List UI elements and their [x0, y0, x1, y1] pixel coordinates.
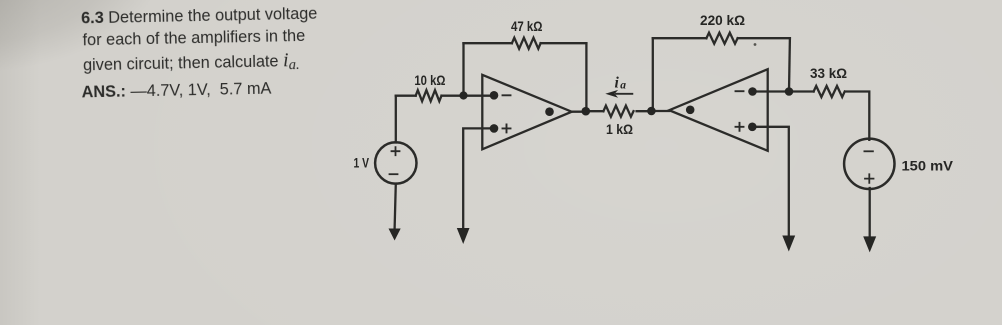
- op-amp U1 triangle: [482, 75, 571, 150]
- problem statement text block: [0, 0, 419, 4]
- opamp1 output pin dot: [545, 107, 554, 116]
- op-amp U2 triangle pointing left: [669, 69, 768, 151]
- 47k feedback left vertical: [462, 43, 464, 95]
- ia arrowhead pointing left: [605, 90, 618, 98]
- wire opamp2 minus pin to node: [753, 90, 790, 92]
- junction dot at opamp1 inverting node: [459, 91, 467, 99]
- V1 plus sign: [392, 147, 400, 155]
- U1 minus sign: [503, 94, 511, 96]
- node dot 1k right / 220k / opamp2 output: [647, 107, 656, 116]
- V1 minus sign: [390, 173, 398, 175]
- wire 33k right lead and corner down to source: [846, 92, 870, 140]
- opamp2 minus input pin dot: [748, 87, 757, 96]
- ground arrowhead below V2: [863, 236, 876, 252]
- 220k feedback right vertical to minus node: [788, 38, 791, 91]
- U2 minus sign: [736, 90, 744, 92]
- wire node to opamp2 apex: [651, 110, 669, 112]
- wire V1 bottom to ground: [395, 184, 396, 230]
- svg-text:220 kΩ: 220 kΩ: [700, 13, 745, 28]
- wire 10k left lead: [396, 95, 416, 97]
- resistor R4 220k zigzag: [706, 33, 737, 44]
- 220k feedback top right wire: [738, 37, 790, 39]
- opamp2 output pin dot: [686, 106, 695, 115]
- wire opamp1 plus pin to ground drop: [463, 128, 494, 228]
- svg-text:1 kΩ: 1 kΩ: [606, 122, 633, 137]
- U2 plus sign: [736, 123, 744, 131]
- svg-text:a: a: [620, 80, 626, 92]
- speckle dot: [754, 43, 757, 46]
- wire V1 top to 10k: [395, 96, 397, 143]
- svg-text:i: i: [615, 74, 620, 91]
- node dot 220k / 33k: [785, 87, 794, 96]
- svg-text:1 V: 1 V: [354, 156, 370, 171]
- 220k feedback top left wire: [653, 37, 707, 39]
- opamp1 minus input pin dot: [490, 91, 499, 100]
- resistor R2 47k zigzag: [512, 38, 541, 49]
- wire node to 1k left lead: [586, 110, 604, 112]
- wire 10k right lead to opamp1 minus pin: [442, 95, 495, 97]
- U1 plus sign: [503, 124, 511, 132]
- ground arrowhead below opamp1 plus wire: [457, 228, 470, 244]
- wire 1k right lead to node: [637, 110, 652, 112]
- svg-text:10 kΩ: 10 kΩ: [414, 73, 445, 88]
- V2 plus sign (bottom): [865, 174, 874, 183]
- 47k feedback top left wire: [464, 42, 512, 44]
- 47k feedback right vertical to output node: [585, 43, 587, 111]
- voltage source V1 1V: [375, 142, 416, 183]
- ground arrowhead below opamp2 plus wire: [782, 236, 795, 252]
- current arrow ia shaft: [616, 93, 632, 95]
- V2 minus sign (top): [864, 150, 873, 152]
- opamp1 plus input pin dot: [490, 124, 499, 133]
- 47k feedback top right wire: [541, 42, 587, 44]
- ground arrowhead below V1: [389, 229, 401, 241]
- resistor R3 1k zigzag: [603, 106, 633, 117]
- svg-text:47 kΩ: 47 kΩ: [511, 19, 543, 34]
- svg-text:33 kΩ: 33 kΩ: [810, 66, 847, 81]
- opamp2 plus input pin dot: [748, 123, 757, 132]
- 220k feedback left vertical: [652, 38, 654, 110]
- wire V2 bottom to ground: [869, 188, 871, 236]
- resistor R1 10k zigzag: [416, 90, 442, 101]
- svg-text:150 mV: 150 mV: [902, 158, 954, 173]
- wire opamp2 plus pin right then down to ground: [752, 127, 789, 236]
- node dot opamp1 output / 47k / 1k: [582, 107, 591, 116]
- voltage source V2 150mV: [844, 139, 894, 189]
- wire node to 33k left lead: [789, 90, 814, 92]
- resistor R5 33k zigzag: [814, 86, 845, 97]
- wire opamp1 output to node: [572, 111, 586, 113]
